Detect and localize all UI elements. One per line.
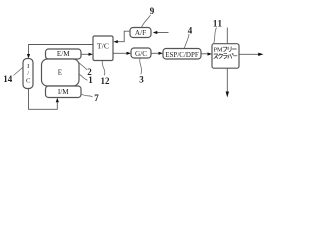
kana su (line2) bbox=[214, 54, 218, 59]
box A/F bbox=[130, 28, 151, 38]
svg-text:4: 4 bbox=[188, 26, 193, 36]
kana fu (line1) bbox=[223, 47, 227, 51]
svg-text:T/C: T/C bbox=[97, 42, 109, 51]
arrowhead down below PM scrubber bbox=[226, 92, 229, 98]
svg-text:12: 12 bbox=[101, 76, 111, 86]
svg-text:G/C: G/C bbox=[135, 50, 147, 58]
kana ba (line2) bbox=[228, 54, 233, 59]
svg-text:1: 1 bbox=[88, 75, 93, 85]
svg-text:E: E bbox=[58, 69, 63, 77]
box T/C bbox=[93, 36, 113, 61]
svg-text:A/F: A/F bbox=[135, 29, 146, 37]
box I/C bbox=[23, 59, 33, 89]
svg-text:11: 11 bbox=[213, 19, 223, 29]
wire G/C to ESP bbox=[151, 52, 160, 54]
arrowhead into A/F bbox=[153, 31, 158, 34]
box G/C bbox=[131, 48, 151, 58]
wire T/C to G/C bbox=[113, 52, 128, 54]
arrowhead into I/C top bbox=[27, 54, 30, 59]
wire T/C to I/C loop bbox=[29, 45, 94, 56]
svg-text:I: I bbox=[27, 63, 29, 70]
wire E/M to T/C bbox=[81, 53, 90, 55]
leader 11 bbox=[214, 28, 217, 44]
wire A/F to T/C bbox=[117, 31, 130, 42]
svg-text:14: 14 bbox=[3, 74, 13, 84]
kana long-vowel (line2) bbox=[233, 55, 237, 57]
arrowhead into G/C bbox=[127, 52, 132, 55]
svg-text:/: / bbox=[27, 70, 29, 77]
wire PM scrubber out right bbox=[239, 53, 259, 55]
box I/M bbox=[46, 86, 82, 98]
svg-text:E/M: E/M bbox=[57, 50, 70, 58]
wire PM scrubber bottom bbox=[226, 68, 228, 92]
leader 4 bbox=[184, 34, 189, 48]
kana ku (line2) bbox=[219, 54, 223, 59]
arrowhead out right bbox=[258, 53, 263, 56]
arrowhead into ESP bbox=[159, 52, 164, 55]
svg-text:3: 3 bbox=[139, 75, 144, 85]
svg-text:9: 9 bbox=[150, 6, 155, 16]
leader 12 bbox=[102, 61, 105, 75]
wire I/C to I/M bbox=[29, 89, 58, 110]
kana long-vowel (line1) bbox=[232, 48, 236, 50]
arrowhead up into I/M bbox=[56, 98, 59, 103]
leader 7 bbox=[81, 94, 93, 98]
svg-text:7: 7 bbox=[94, 93, 99, 103]
svg-text:ESP/C/DPF: ESP/C/DPF bbox=[165, 51, 199, 59]
leader 14 bbox=[14, 68, 23, 76]
box E/M bbox=[46, 49, 82, 59]
wire ESP to PM scrubber bbox=[201, 53, 209, 55]
box ESP/C/DPF bbox=[163, 49, 201, 60]
svg-text:PM: PM bbox=[214, 47, 223, 54]
box PM free scrubber bbox=[212, 44, 239, 68]
kana ri (line1) bbox=[228, 47, 231, 52]
leader 9 bbox=[142, 15, 151, 27]
svg-text:C: C bbox=[26, 78, 31, 85]
arrowhead into T/C left from E/M bbox=[89, 53, 94, 56]
leader 2 bbox=[76, 60, 87, 70]
kana ra (line2) bbox=[223, 54, 227, 59]
svg-text:I/M: I/M bbox=[58, 88, 69, 96]
wire PM scrubber top stub bbox=[226, 28, 228, 44]
leader 1 bbox=[79, 74, 88, 80]
arrowhead into PM scrubber bbox=[208, 52, 213, 55]
box E bbox=[42, 59, 80, 86]
wire A/F input arrow bbox=[157, 32, 169, 34]
arrowhead into T/C right bbox=[113, 40, 118, 43]
leader 3 bbox=[140, 59, 142, 75]
